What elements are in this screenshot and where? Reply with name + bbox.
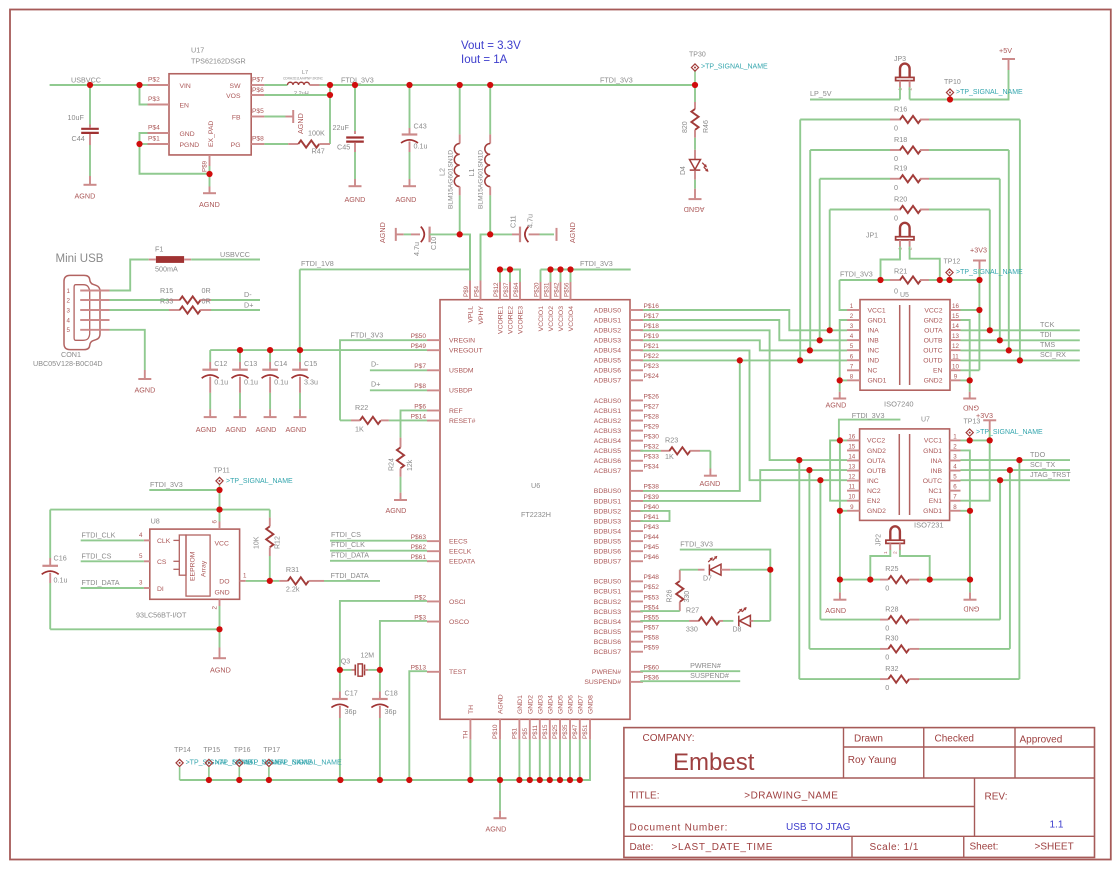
svg-text:FTDI_3V3: FTDI_3V3	[600, 76, 633, 85]
wire PGND	[140, 143, 148, 145]
resistor R12	[254, 510, 282, 581]
U5 pin 1 VCC1	[847, 303, 886, 314]
svg-text:R19: R19	[894, 164, 907, 173]
resistor R46	[682, 85, 710, 150]
wire GND1 U5 pin2	[840, 320, 847, 380]
svg-text:AGND: AGND	[568, 222, 577, 243]
svg-text:PGND: PGND	[180, 142, 200, 149]
junction GND2 U7	[837, 508, 843, 514]
svg-text:6: 6	[953, 484, 957, 491]
resistor R22	[340, 403, 427, 434]
svg-text:BCBUS3: BCBUS3	[594, 609, 621, 616]
svg-text:P$21: P$21	[644, 343, 660, 350]
U7 pin 4 INB	[931, 464, 961, 475]
svg-text:NC2: NC2	[867, 488, 881, 495]
svg-text:P$45: P$45	[644, 544, 660, 551]
svg-text:+3V3: +3V3	[976, 411, 993, 420]
label net FTDI_3V3 TP11	[150, 480, 183, 489]
U5 pin 8 GND1	[847, 373, 887, 384]
junction XT1	[337, 667, 343, 673]
U7 pin 13 OUTB	[847, 464, 886, 475]
wire TCK	[961, 329, 1080, 331]
svg-text:AGND: AGND	[825, 606, 846, 615]
capacitor C18	[371, 670, 397, 780]
svg-text:GND2: GND2	[924, 317, 943, 324]
junction P$9 pad	[206, 171, 212, 177]
U7 pin 14 OUTA	[847, 454, 886, 465]
svg-text:0.1u: 0.1u	[244, 378, 258, 387]
wire ADBUS2 to OUTA	[640, 330, 847, 460]
svg-text:11: 11	[952, 353, 959, 360]
junction gndbus x579.8	[577, 777, 583, 783]
U6 pin P$40 BDBUS2	[594, 504, 659, 516]
svg-text:CLK: CLK	[157, 538, 171, 545]
svg-text:FTDI_3V3: FTDI_3V3	[840, 270, 873, 279]
label TP_SIGNAL_NAME TP30	[701, 64, 768, 71]
svg-text:VREGOUT: VREGOUT	[449, 348, 483, 355]
svg-text:VCORE3: VCORE3	[518, 306, 525, 334]
svg-text:D+: D+	[371, 380, 380, 389]
svg-text:P$59: P$59	[644, 645, 660, 652]
svg-text:14: 14	[952, 323, 959, 330]
svg-text:VCCIO4: VCCIO4	[568, 306, 575, 332]
svg-text:AGND: AGND	[256, 425, 277, 434]
label TP_SIGNAL_NAME TP15	[215, 760, 282, 767]
svg-text:P$34: P$34	[644, 464, 660, 471]
svg-text:10: 10	[848, 494, 855, 501]
U6 pin P$5 GND2	[522, 695, 535, 740]
title block COMPANY	[643, 733, 695, 744]
junction TMS R18	[1006, 347, 1012, 353]
U5 pin 10 EN	[933, 363, 960, 374]
svg-text:P$29: P$29	[644, 423, 660, 430]
wire IND feed vertical	[640, 360, 740, 491]
U6 pin P$64 VCORE3	[513, 281, 525, 334]
svg-text:EN: EN	[180, 103, 190, 110]
U6 pin P$18 ADBUS2	[594, 323, 659, 335]
svg-text:FTDI_1V8: FTDI_1V8	[301, 259, 334, 268]
label net FTDI_DATA U6	[331, 550, 369, 559]
svg-text:FTDI_3V3: FTDI_3V3	[351, 331, 384, 340]
svg-text:AGND: AGND	[396, 195, 417, 204]
svg-text:TCK: TCK	[1040, 320, 1055, 329]
svg-text:P$56: P$56	[564, 282, 571, 297]
svg-text:12k: 12k	[407, 459, 414, 471]
svg-text:EECLK: EECLK	[449, 549, 472, 556]
testpoint TP10	[944, 79, 961, 100]
svg-text:330: 330	[686, 625, 698, 634]
svg-text:FTDI_CS: FTDI_CS	[331, 530, 361, 539]
wire ADBUS1 to INB	[640, 320, 847, 340]
label net PWREN#	[690, 661, 721, 670]
junction XT2	[377, 667, 383, 673]
svg-text:C15: C15	[304, 359, 317, 368]
svg-text:EN: EN	[933, 368, 943, 375]
svg-text:P$3: P$3	[148, 96, 160, 103]
svg-text:CS: CS	[157, 559, 167, 566]
svg-text:GND1: GND1	[868, 378, 887, 385]
U6 pin P$1 GND1	[511, 695, 524, 740]
title block Scale	[870, 842, 919, 853]
resistor R33	[160, 297, 260, 314]
svg-text:P$12: P$12	[493, 282, 500, 297]
U7 pin 12 INC	[847, 474, 879, 485]
U7 pin 1 VCC1	[924, 433, 961, 444]
svg-text:CON1: CON1	[61, 350, 81, 359]
U17 pin P$4	[148, 125, 170, 134]
junction rail C13	[237, 347, 243, 353]
svg-text:TEST: TEST	[449, 669, 466, 676]
svg-text:P$11: P$11	[532, 724, 539, 739]
svg-text:P$1: P$1	[511, 727, 518, 739]
U5 pin 16 VCC2	[924, 303, 960, 314]
ground AGND C13	[226, 417, 247, 434]
inductor L1	[467, 85, 490, 234]
svg-text:VCCIO2: VCCIO2	[548, 306, 555, 332]
svg-text:0: 0	[885, 583, 889, 592]
wire ADBUS0 to INA	[640, 310, 847, 330]
svg-text:GND6: GND6	[568, 695, 575, 714]
junction SCI_RX R16	[1017, 357, 1023, 363]
svg-text:0: 0	[885, 653, 889, 662]
wire SCI_TX	[961, 469, 1071, 471]
wire VCORE1 drop	[499, 270, 501, 283]
U17 pin P$2	[148, 77, 170, 86]
svg-text:GND5: GND5	[558, 695, 565, 714]
svg-text:USBVCC: USBVCC	[220, 250, 250, 259]
svg-text:BDBUS7: BDBUS7	[594, 559, 621, 566]
label TP_SIGNAL_NAME TP16	[245, 760, 312, 767]
junction TDO R32	[1016, 457, 1022, 463]
svg-text:P$42: P$42	[554, 282, 561, 297]
capacitor C45	[333, 85, 364, 186]
U6 pin P$48 BCBUS0	[594, 574, 659, 586]
svg-text:USBDP: USBDP	[449, 388, 473, 395]
ground GND U5	[963, 380, 979, 412]
svg-text:R47: R47	[312, 147, 325, 156]
svg-text:2: 2	[953, 443, 957, 450]
U6 pin P$38 BDBUS0	[594, 484, 659, 496]
U6 pin P$53 BCBUS2	[594, 594, 659, 606]
capacitor C15	[292, 350, 319, 416]
svg-text:1K: 1K	[355, 425, 364, 434]
resistor R21	[890, 267, 980, 296]
svg-text:C13: C13	[244, 359, 257, 368]
power +5V	[999, 46, 1015, 70]
U5 pin 3 INA	[847, 323, 879, 334]
U6 pin P$62 EECLK	[411, 544, 472, 556]
U6 pin P$41 BDBUS3	[594, 514, 659, 526]
label net FTDI_3V3 leds	[680, 539, 713, 548]
svg-text:3: 3	[139, 580, 143, 587]
junction VCCIO4	[567, 266, 573, 272]
wire R18 left vertical	[809, 150, 811, 350]
svg-text:P$47: P$47	[572, 724, 579, 739]
svg-text:C45: C45	[337, 143, 350, 152]
svg-text:ADBUS6: ADBUS6	[594, 368, 621, 375]
svg-text:SCI_TX: SCI_TX	[1030, 460, 1055, 469]
svg-text:TP14: TP14	[174, 747, 191, 754]
svg-text:BCBUS2: BCBUS2	[594, 599, 621, 606]
svg-text:GND1: GND1	[868, 317, 887, 324]
wire JTAG_TRST	[961, 479, 1071, 481]
U6 pin P$35 GND6	[562, 695, 575, 740]
U8 pin 1 DO	[240, 573, 247, 581]
svg-text:ADBUS3: ADBUS3	[594, 337, 621, 344]
svg-text:EEPROM: EEPROM	[190, 551, 197, 581]
label net LP_5V	[810, 89, 832, 98]
title block TITLE	[630, 791, 660, 802]
wire VCC2-EN2	[830, 440, 847, 500]
title block Document Number	[630, 823, 729, 834]
U8 pin 4	[139, 532, 150, 540]
junction gndbus x570	[567, 777, 573, 783]
wire OSCI	[340, 601, 427, 670]
svg-text:Q3: Q3	[341, 659, 350, 666]
junction TP16	[236, 777, 242, 783]
svg-text:500mA: 500mA	[155, 265, 178, 274]
svg-text:R22: R22	[355, 403, 368, 412]
svg-text:BCBUS1: BCBUS1	[594, 589, 621, 596]
label net FTDI_DATA U8	[82, 578, 120, 587]
svg-text:3: 3	[67, 307, 71, 314]
U6 pin P$45 BDBUS6	[594, 544, 659, 556]
svg-text:>DRAWING_NAME: >DRAWING_NAME	[744, 791, 838, 802]
label TP_SIGNAL_NAME TP11	[226, 478, 293, 485]
capacitor C13	[232, 350, 259, 416]
U17 pin names	[180, 83, 242, 149]
svg-text:2: 2	[850, 313, 854, 320]
svg-text:TPS62162DSGR: TPS62162DSGR	[191, 57, 246, 66]
wire FTDI_CS U6	[330, 540, 427, 542]
svg-text:P$20: P$20	[534, 282, 541, 297]
junction VCC2 3V3	[976, 307, 982, 313]
junction gndbus x560	[557, 777, 563, 783]
svg-text:F1: F1	[155, 245, 163, 254]
U6 pin P$32 ACBUS5	[594, 444, 659, 456]
svg-text:4: 4	[953, 464, 957, 471]
crystal Q3	[340, 653, 380, 677]
svg-text:P$50: P$50	[411, 333, 427, 340]
svg-text:P$15: P$15	[542, 724, 549, 739]
wire gnd pin drop x549.8	[549, 740, 551, 780]
svg-text:FTDI_CLK: FTDI_CLK	[82, 530, 116, 539]
svg-text:SUSPEND#: SUSPEND#	[690, 671, 729, 680]
svg-text:9: 9	[954, 373, 958, 380]
U17 pin P$7	[251, 77, 264, 86]
junction VCC U8	[216, 507, 222, 513]
svg-text:0: 0	[894, 287, 898, 296]
svg-text:ACBUS1: ACBUS1	[594, 408, 621, 415]
svg-text:P$17: P$17	[644, 313, 660, 320]
svg-text:P$4: P$4	[474, 285, 481, 297]
svg-text:1K: 1K	[665, 452, 674, 461]
svg-text:JP1: JP1	[866, 233, 878, 240]
svg-text:0: 0	[885, 683, 889, 692]
wire PGND to pad	[140, 144, 210, 174]
wire FTDI_DATA U6	[330, 560, 427, 562]
label net D+ R33	[244, 300, 253, 309]
wire FTDI_3V3 R21	[840, 279, 891, 281]
svg-text:P$41: P$41	[644, 514, 660, 521]
svg-text:P$30: P$30	[644, 433, 660, 440]
svg-text:P$7: P$7	[252, 77, 264, 84]
svg-text:R26: R26	[667, 590, 674, 603]
resistor R47	[264, 129, 330, 156]
svg-text:OUTB: OUTB	[924, 337, 943, 344]
svg-text:ACBUS0: ACBUS0	[594, 398, 621, 405]
svg-text:+3V3: +3V3	[970, 246, 987, 255]
svg-text:P$35: P$35	[562, 724, 569, 739]
wire VREGIN	[340, 340, 427, 350]
svg-text:PWREN#: PWREN#	[690, 661, 721, 670]
svg-text:Array: Array	[201, 560, 208, 577]
svg-text:BDBUS3: BDBUS3	[594, 518, 621, 525]
junction TP30	[692, 82, 698, 88]
svg-text:D8: D8	[733, 627, 742, 634]
svg-text:R23: R23	[665, 435, 678, 444]
label net USBVCC F1	[220, 250, 250, 259]
svg-text:Document Number:: Document Number:	[630, 823, 729, 834]
U7 pin 8 GND1	[923, 504, 960, 515]
svg-text:VCC1: VCC1	[868, 307, 886, 314]
capacitor C11	[490, 214, 554, 242]
svg-text:Mini USB: Mini USB	[56, 253, 104, 265]
resistor R28	[820, 480, 1000, 632]
svg-text:7: 7	[850, 363, 854, 370]
svg-text:VCCIO1: VCCIO1	[538, 306, 545, 332]
ground AGND R23	[700, 451, 721, 488]
junction TP12	[946, 277, 952, 283]
CON1 pin 4	[67, 317, 110, 324]
svg-text:2.2k: 2.2k	[286, 585, 300, 594]
svg-text:0: 0	[885, 623, 889, 632]
svg-text:8: 8	[850, 373, 854, 380]
title block Approved	[1020, 735, 1063, 746]
wire TDI	[961, 339, 1080, 341]
title block Roy Yaung	[848, 755, 897, 766]
junction OUTA row	[796, 457, 802, 463]
svg-text:ACBUS4: ACBUS4	[594, 438, 621, 445]
U17 pin P$5	[251, 108, 264, 117]
label Mini USB	[56, 253, 104, 265]
U6 pin P$17 ADBUS1	[594, 313, 659, 325]
svg-text:3: 3	[850, 323, 854, 330]
svg-text:12: 12	[848, 474, 855, 481]
svg-text:36p: 36p	[385, 707, 397, 716]
U7 pin 2 GND1	[923, 443, 960, 454]
U6 pin P$23 ADBUS6	[594, 363, 659, 375]
wire GND2 U5 pin9	[961, 379, 970, 381]
svg-text:TP16: TP16	[234, 747, 251, 754]
svg-text:GND2: GND2	[527, 695, 534, 714]
svg-text:P$5: P$5	[522, 727, 529, 739]
U7 pin 7 EN1	[929, 494, 961, 505]
label net FTDI_3V3 U6	[580, 259, 613, 268]
svg-text:VCORE2: VCORE2	[508, 306, 515, 334]
svg-text:VCORE1: VCORE1	[498, 306, 505, 334]
wire TDO	[961, 459, 1071, 461]
U7 pin 5 OUTC	[923, 474, 961, 485]
wire VCCIO4 drop	[570, 270, 572, 283]
label net FTDI_DATA R31	[331, 571, 369, 580]
svg-text:16: 16	[848, 433, 855, 440]
svg-text:ADBUS0: ADBUS0	[594, 307, 621, 314]
svg-text:4: 4	[139, 532, 143, 539]
power +3V3 U7	[976, 411, 996, 440]
wire D- U6	[370, 369, 427, 371]
wire FTDI_CS U8	[81, 560, 144, 562]
CON1 pin 3	[67, 307, 110, 314]
testpoint TP15	[203, 747, 220, 780]
svg-text:P$1: P$1	[148, 136, 160, 143]
svg-text:P$2: P$2	[148, 77, 160, 84]
U7 pin 16 VCC2	[847, 433, 885, 444]
svg-text:ACBUS5: ACBUS5	[594, 448, 621, 455]
svg-text:Vout = 3.3V: Vout = 3.3V	[461, 40, 521, 52]
svg-text:USBVCC: USBVCC	[71, 76, 101, 85]
svg-text:0.1u: 0.1u	[414, 142, 428, 151]
U6 pin P$56 VCCIO4	[564, 281, 576, 332]
svg-text:BDBUS0: BDBUS0	[594, 488, 621, 495]
junction INC row	[817, 477, 823, 483]
wire 3V3 to EN	[978, 280, 980, 370]
testpoint TP14	[174, 747, 191, 780]
wire P40-P41 bracket	[640, 511, 669, 521]
label net SCI_RX	[1040, 350, 1066, 359]
label net FTDI_3V3 a	[341, 76, 374, 85]
wire JP3 pin2 down	[909, 87, 911, 99]
U6 pin P$13 TEST	[411, 665, 467, 677]
svg-text:R20: R20	[894, 194, 907, 203]
junction OUTB row	[806, 467, 812, 473]
wire led return	[769, 570, 771, 621]
junction gndbus x409.3	[406, 777, 412, 783]
junction rail C14	[267, 347, 273, 353]
svg-text:P$16: P$16	[644, 303, 660, 310]
wire gnd pin drop x470.4	[469, 740, 471, 780]
svg-text:D7: D7	[703, 576, 712, 583]
svg-text:>TP_SIGNAL_NAME: >TP_SIGNAL_NAME	[226, 478, 293, 485]
svg-text:2: 2	[67, 297, 71, 304]
svg-text:ISO7240: ISO7240	[884, 400, 914, 409]
svg-text:Drawn: Drawn	[854, 734, 883, 745]
svg-text:BCBUS5: BCBUS5	[594, 629, 621, 636]
svg-text:U6: U6	[531, 481, 540, 490]
svg-text:R15: R15	[160, 286, 173, 295]
U6 pin P$7 USBDM	[414, 363, 474, 375]
ground AGND bus	[486, 780, 507, 834]
svg-text:4.7u: 4.7u	[412, 242, 421, 256]
ground AGND C15	[286, 417, 307, 434]
svg-text:Sheet:: Sheet:	[970, 842, 999, 853]
svg-text:D-: D-	[371, 360, 379, 369]
svg-text:P$23: P$23	[644, 363, 660, 370]
CON1 pin 2	[67, 297, 110, 304]
svg-text:8: 8	[953, 504, 957, 511]
svg-text:COMPANY:: COMPANY:	[643, 733, 695, 744]
svg-text:EECS: EECS	[449, 538, 468, 545]
svg-text:>TP_SIGNAL_NAME: >TP_SIGNAL_NAME	[956, 89, 1023, 96]
svg-text:OUTC: OUTC	[923, 348, 942, 355]
svg-text:P$5: P$5	[252, 108, 264, 115]
U8 pin 5	[139, 553, 150, 561]
svg-text:14: 14	[848, 454, 855, 461]
U6 pin P$14 RESET#	[411, 413, 476, 425]
ground AGND R25	[825, 580, 846, 615]
svg-text:GND1: GND1	[517, 695, 524, 714]
U7 pin 3 INA	[931, 454, 961, 465]
